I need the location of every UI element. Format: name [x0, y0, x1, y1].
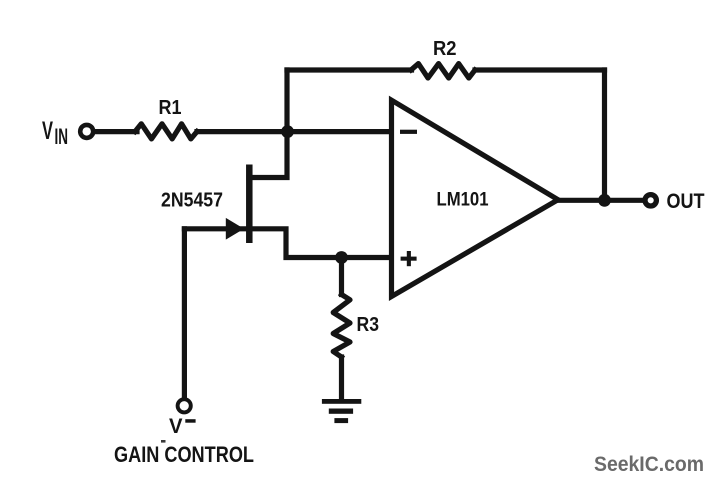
svg-text:IN: IN	[55, 124, 69, 149]
wire feedback down to output node	[602, 70, 607, 200]
junction output node	[598, 194, 611, 207]
wire gate lead	[184, 226, 247, 231]
resistor R1	[135, 124, 197, 139]
transistor Q1 2N5457 channel bar	[246, 165, 253, 244]
svg-text:R2: R2	[433, 38, 457, 60]
svg-text:V: V	[42, 117, 53, 145]
wire Vin to R1	[96, 129, 138, 134]
ground symbol	[322, 399, 361, 423]
label Vin	[42, 117, 68, 149]
wire R1 to node A and inverting input	[197, 129, 391, 134]
wire top rail right segment	[475, 67, 605, 72]
scan speck above GAIN CONTROL	[161, 440, 166, 443]
wire top rail left segment	[287, 67, 412, 72]
wire opamp output to OUT	[558, 198, 642, 203]
resistor R3	[333, 295, 350, 358]
junction node B	[335, 251, 348, 264]
op-amp U1 LM101 triangle	[392, 100, 559, 296]
node V- gain control terminal	[178, 399, 191, 412]
node Vin terminal	[80, 125, 93, 138]
wire drain lead	[249, 132, 287, 178]
junction node A	[281, 125, 294, 138]
transistor Q1 gate arrowhead	[226, 218, 244, 240]
wire gate down to gain control terminal	[182, 229, 187, 397]
svg-text:LM101: LM101	[437, 189, 489, 211]
label V-	[169, 414, 196, 438]
svg-text:2N5457: 2N5457	[161, 190, 223, 212]
svg-text:V: V	[169, 414, 183, 438]
svg-text:SeekIC.com: SeekIC.com	[594, 452, 704, 476]
resistor R2	[411, 64, 475, 78]
wire R3 to ground	[339, 357, 344, 400]
wire node A up to feedback rail	[284, 70, 289, 133]
op-amp minus sign	[400, 130, 417, 134]
svg-text:R1: R1	[159, 97, 182, 119]
svg-text:OUT: OUT	[667, 190, 705, 213]
wire node B down to R3	[339, 258, 344, 295]
svg-text:R3: R3	[357, 314, 380, 336]
op-amp plus sign	[401, 251, 417, 266]
wire source lead to node B	[249, 229, 341, 258]
svg-text:GAIN CONTROL: GAIN CONTROL	[114, 442, 254, 467]
node OUT terminal	[645, 195, 656, 206]
wire node B to non-inverting input	[341, 255, 391, 260]
